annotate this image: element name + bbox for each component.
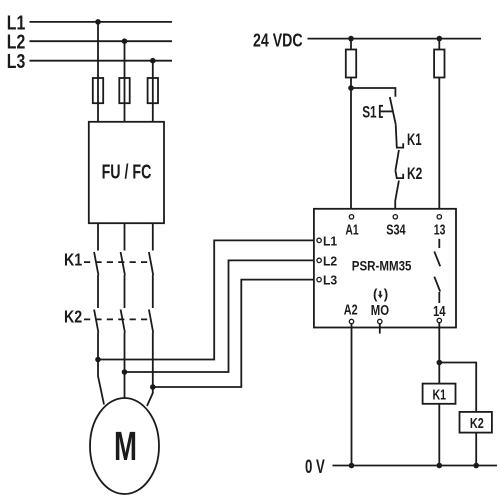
wire L1 drop (97, 22, 99, 122)
terminal S34 (393, 215, 397, 219)
wire L2 drop (124, 41, 126, 122)
wire branch to S1 (351, 88, 395, 97)
wire to terminal A1 (350, 88, 352, 215)
wire coil K2 to 0V (475, 433, 477, 466)
svg-text:K2: K2 (64, 307, 82, 327)
node coil K2 0V (473, 463, 479, 469)
node U (95, 357, 101, 363)
svg-text:L1: L1 (323, 234, 337, 248)
wire 24 VDC rail (308, 38, 482, 40)
contactor K1 contact pole 1 (94, 252, 98, 275)
wire node W to terminal L3 (153, 280, 317, 387)
svg-text:14: 14 (433, 304, 446, 320)
wire S1 to contact K1 (396, 124, 404, 147)
motor M (90, 398, 159, 494)
terminal L3 (317, 277, 321, 281)
svg-text:M: M (114, 423, 137, 469)
svg-text:S34: S34 (386, 222, 405, 238)
wire L3 drop (152, 61, 154, 122)
switch S1 emergency stop (390, 97, 396, 124)
safety relay U1 PSR-MM35 (314, 209, 456, 328)
wire pole3 to node W (152, 333, 154, 388)
svg-text:L2: L2 (323, 254, 337, 268)
wire pole2 below FU/FC (124, 223, 126, 250)
node 14 branch (437, 360, 443, 366)
node rail-F4 (348, 36, 354, 42)
svg-text:K2: K2 (470, 415, 484, 432)
svg-text:0 V: 0 V (305, 456, 325, 478)
wire contact K1 to contact K2 (395, 171, 403, 178)
wire node U to motor (98, 360, 104, 405)
svg-text:FU / FC: FU / FC (102, 161, 152, 183)
terminal A1 (349, 215, 353, 219)
svg-text:L3: L3 (7, 51, 26, 73)
contact K2 NO (395, 181, 399, 202)
wire node V to terminal L2 (125, 260, 317, 372)
relay coil K2 (460, 412, 492, 433)
wire pole3 below FU/FC (152, 223, 154, 250)
svg-text:K1: K1 (407, 131, 422, 149)
wire contact K2 to terminal S34 (394, 201, 396, 215)
fuse F5 (434, 50, 444, 78)
svg-text:L3: L3 (323, 274, 337, 288)
wire pole2 to node V (124, 333, 126, 373)
wire A2 to 0V (351, 324, 353, 466)
wire branch to coil K2 (439, 363, 476, 412)
contactor K1 contact pole 2 (121, 252, 125, 275)
svg-text:K1: K1 (64, 250, 82, 270)
wire F4 drop (350, 39, 352, 88)
svg-text:S1: S1 (362, 102, 376, 121)
terminal MO (378, 319, 382, 323)
svg-text:13: 13 (434, 222, 446, 238)
fuse F2 (119, 78, 129, 103)
svg-text:K1: K1 (433, 386, 447, 403)
contactor K1 mechanical link (84, 261, 150, 263)
svg-text:A1: A1 (345, 222, 358, 238)
fuse F1 (93, 78, 103, 103)
wire pole1 mid (97, 275, 99, 308)
relay coil K1 (423, 384, 456, 404)
svg-text:MO: MO (371, 303, 389, 319)
node V (122, 369, 128, 375)
wire 14 down (438, 323, 440, 384)
terminal 14 (437, 318, 441, 322)
wire pole3 mid (152, 275, 154, 308)
terminal L2 (317, 258, 321, 262)
terminal L1 (317, 238, 321, 242)
frequency converter FU/FC (89, 122, 164, 223)
contact K1 NO (395, 150, 399, 171)
wire 0V rail (333, 465, 498, 467)
contactor K2 mechanical link (84, 318, 150, 320)
wire L2 rail (30, 40, 173, 42)
node coil K1 0V (437, 463, 443, 469)
node L1 tap (95, 19, 101, 25)
svg-text:): ) (384, 286, 388, 302)
contactor K2 contact pole 1 (94, 310, 98, 333)
wire MO stub (379, 324, 381, 334)
node A2 0V (349, 463, 355, 469)
relay contact 13-14 (438, 239, 440, 248)
svg-text:24 VDC: 24 VDC (253, 30, 303, 50)
node L3 tap (150, 58, 156, 64)
contactor K2 contact pole 3 (149, 310, 153, 333)
svg-text:(: ( (373, 286, 378, 302)
wire pole1 to node U (97, 333, 99, 360)
node S1 branch (348, 85, 354, 91)
svg-text:A2: A2 (344, 303, 358, 319)
fuse F4 (346, 50, 356, 78)
terminal 13 (437, 215, 441, 219)
wire node U to terminal L1 (98, 240, 317, 359)
node L2 tap (122, 38, 128, 44)
wire node V to motor (124, 372, 126, 399)
wire pole2 mid (124, 275, 126, 308)
terminal A2 (349, 319, 353, 323)
wire L1 rail (30, 21, 173, 23)
svg-text:PSR-MM35: PSR-MM35 (352, 259, 412, 274)
wire coil K1 to 0V (438, 404, 440, 466)
contactor K2 contact pole 2 (121, 310, 125, 333)
svg-text:K2: K2 (407, 165, 422, 183)
wire F5 drop to terminal 13 (438, 39, 440, 215)
node W (150, 384, 156, 390)
wire node W to motor (147, 387, 153, 406)
fuse F3 (148, 78, 158, 103)
contactor K1 contact pole 3 (149, 252, 153, 275)
node rail-F5 (437, 36, 443, 42)
wire pole1 below FU/FC (97, 223, 99, 250)
wire L3 rail (30, 60, 173, 62)
